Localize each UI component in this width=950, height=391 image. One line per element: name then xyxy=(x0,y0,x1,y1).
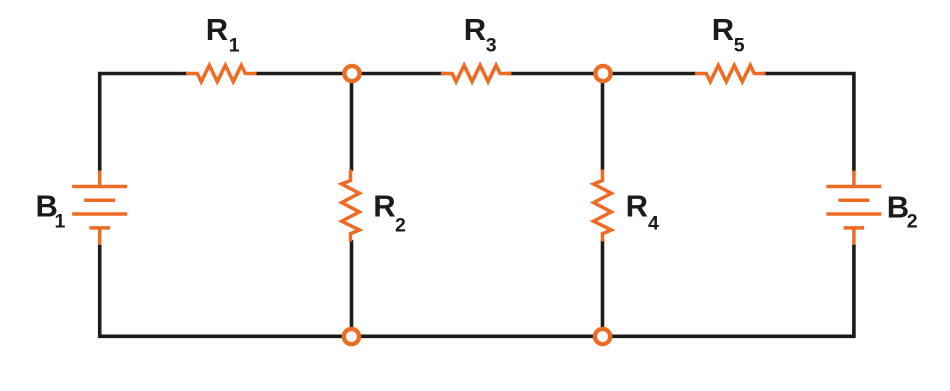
svg-text:1: 1 xyxy=(229,35,240,57)
label B2 xyxy=(887,189,918,232)
wire top-left corner (battery B1 top to R1) xyxy=(100,74,188,173)
resistor R3 xyxy=(441,65,512,81)
wire top-right corner (R5 to battery B2 top) xyxy=(764,74,854,173)
svg-text:R: R xyxy=(712,12,734,47)
wire R1 to node A xyxy=(255,72,352,76)
resistor R5 xyxy=(695,65,766,81)
battery B2 xyxy=(826,171,881,246)
svg-text:2: 2 xyxy=(395,215,406,237)
wire node B to R5 xyxy=(603,72,697,76)
svg-text:R: R xyxy=(464,12,486,47)
node A (top junction of R1/R2/R3) xyxy=(344,66,359,81)
wire node B down to R4 xyxy=(601,74,605,172)
label R5 xyxy=(712,12,745,57)
svg-text:R: R xyxy=(206,12,228,47)
wire node A to R3 xyxy=(352,72,445,76)
label R1 xyxy=(206,12,240,57)
svg-text:3: 3 xyxy=(486,35,497,57)
svg-text:1: 1 xyxy=(55,211,66,233)
svg-text:R: R xyxy=(373,189,395,224)
label B1 xyxy=(36,189,66,233)
node C (bottom junction under R2) xyxy=(344,329,359,344)
resistor R2 xyxy=(342,170,360,242)
svg-text:R: R xyxy=(626,189,648,224)
wire R3 to node B xyxy=(507,72,603,76)
resistor R4 xyxy=(594,170,612,242)
label R3 xyxy=(464,12,497,57)
label R4 xyxy=(626,189,659,235)
svg-text:5: 5 xyxy=(734,35,745,57)
wire R2 down to bottom node C xyxy=(350,240,354,336)
label R2 xyxy=(373,189,406,237)
wire bottom rail (battery B2 bottom to battery B1 bottom) xyxy=(100,244,854,336)
battery B1 xyxy=(72,171,127,246)
svg-text:4: 4 xyxy=(648,213,659,235)
node B (top junction of R3/R4/R5) xyxy=(595,66,610,81)
wire R4 down to bottom node D xyxy=(601,240,605,336)
svg-text:2: 2 xyxy=(907,211,918,233)
node D (bottom junction under R4) xyxy=(595,329,610,344)
resistor R1 xyxy=(186,65,257,81)
wire node A down to R2 xyxy=(350,74,354,172)
